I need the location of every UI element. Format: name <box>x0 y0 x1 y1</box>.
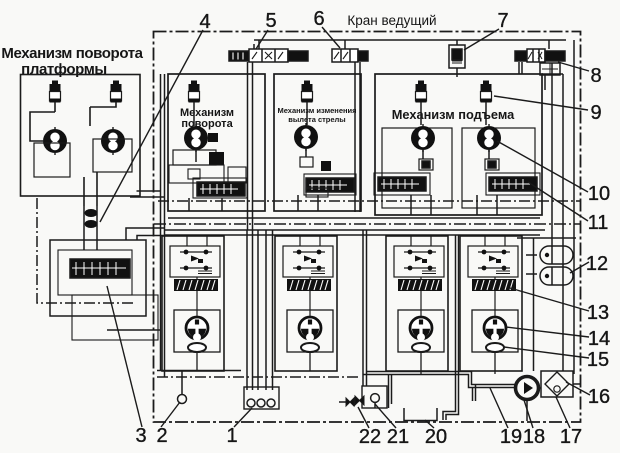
pump group 3 <box>386 236 448 371</box>
accumulator A3 (swing) <box>189 81 200 103</box>
hand pump feed wires <box>363 230 367 386</box>
bus wire 2 <box>164 229 545 231</box>
dash-dot pump suction line <box>157 376 358 378</box>
boom lower box <box>306 188 328 197</box>
bus wire 3 <box>164 234 540 236</box>
leader 16 <box>566 382 590 395</box>
motor M6 (hoist 2) <box>477 124 501 152</box>
wire relief to frame <box>573 383 580 385</box>
motor M5 (hoist 1) <box>411 124 435 152</box>
wire swing motor connections <box>189 102 222 211</box>
boom brake cylinder <box>321 161 331 171</box>
return wire 1 <box>246 230 248 390</box>
wire hoist1 connections <box>411 102 431 215</box>
motor M3 (swing) <box>184 124 208 152</box>
motor M2 sub-box <box>93 139 132 172</box>
wire left interior verticals <box>161 74 165 377</box>
filter under valve 8 <box>540 63 560 75</box>
leader 13 <box>510 288 589 311</box>
svg-text:17: 17 <box>560 426 582 448</box>
wire to drain point <box>181 371 183 395</box>
swing brake cylinder <box>209 152 224 165</box>
main pump 18 (bold circle) <box>516 377 539 400</box>
leader 14 <box>506 327 589 337</box>
brake cylinder ovals (item 4 target) <box>85 209 98 217</box>
right unit horizontal <box>517 237 576 239</box>
wire to ovals <box>84 206 97 250</box>
relief diamond <box>545 372 569 396</box>
leader 18 <box>524 400 533 428</box>
leader 11 <box>528 182 588 221</box>
bus dash-dot boundary <box>154 223 580 225</box>
leader 8 <box>558 62 589 71</box>
wire accu A1 to motor M1 <box>30 102 55 141</box>
leader 12 <box>570 262 589 273</box>
svg-text:2: 2 <box>156 425 167 447</box>
svg-text:20: 20 <box>425 426 447 448</box>
top supply wire <box>254 39 566 41</box>
motor M4 (boom) <box>294 123 318 151</box>
swing spool valve row <box>197 182 245 196</box>
svg-text:Механизм поворота: Механизм поворота <box>1 45 143 62</box>
tank symbol <box>404 408 437 421</box>
filter capsule 12b <box>540 267 573 285</box>
leader 9 <box>494 96 588 110</box>
svg-text:Механизм изменения: Механизм изменения <box>277 106 356 115</box>
svg-text:22: 22 <box>359 426 381 448</box>
wire valve5 drops <box>248 62 253 230</box>
return wire 5 <box>272 230 274 390</box>
wire right interior verticals <box>552 40 574 374</box>
section box: boom mechanism <box>274 74 361 211</box>
wire platform box down-pipes <box>84 172 97 206</box>
section box: swing mechanism <box>168 74 265 211</box>
accumulator A4 (boom) <box>302 81 313 103</box>
hoist2 spool valve row <box>489 177 537 191</box>
svg-text:Кран ведущий: Кран ведущий <box>347 13 436 28</box>
wire capsules to group 4 <box>526 255 537 274</box>
right unit vertical <box>533 238 535 371</box>
suction stubs <box>473 385 476 402</box>
boom spool valve row <box>306 178 354 192</box>
wire platform box to frame 1 <box>137 190 161 192</box>
leader 15 <box>504 347 589 358</box>
wire cluster to bus 2 <box>137 236 165 241</box>
suction corner <box>443 401 459 420</box>
leader 10 <box>497 141 588 192</box>
pilot valve 6 <box>332 40 368 62</box>
gap wires G3-G4 <box>456 235 459 401</box>
svg-text:19: 19 <box>500 426 522 448</box>
wire platform box to frame 2 <box>130 196 165 198</box>
platform control valve block (dense) <box>70 259 130 278</box>
leader 22 <box>358 407 369 428</box>
return wire 3 <box>257 230 259 390</box>
wire valve8 drops <box>519 62 545 90</box>
leader 17 <box>556 397 570 428</box>
svg-text:16: 16 <box>588 386 610 408</box>
svg-text:1: 1 <box>226 425 237 447</box>
pilot valve 5 <box>229 40 308 62</box>
svg-text:14: 14 <box>588 328 610 350</box>
return wire 2 <box>252 230 254 390</box>
leader 3 <box>107 286 142 427</box>
svg-text:6: 6 <box>313 8 324 30</box>
leader 1 <box>234 408 252 427</box>
leader 6 <box>322 27 340 48</box>
wire valve6 drops <box>355 62 360 212</box>
relief valve box 16/17 <box>541 371 573 397</box>
hoist sub-box 2 <box>462 128 535 208</box>
hoist2 brake cylinder <box>485 159 499 170</box>
boom upper valve box <box>300 157 313 167</box>
swing aux dark square <box>208 133 218 142</box>
svg-text:8: 8 <box>590 65 601 87</box>
motor M2 (platform) <box>101 127 125 155</box>
svg-text:21: 21 <box>387 426 409 448</box>
hoist sub-box 1 <box>382 128 452 208</box>
leader 19 <box>490 388 508 428</box>
junction box (item 1) <box>244 387 279 409</box>
leader 5 <box>256 30 268 49</box>
platform control valve nested box 3 <box>72 295 158 340</box>
return wire 4 <box>265 230 267 390</box>
dash-dot interior boundary <box>158 200 580 202</box>
leader 20 <box>425 420 434 428</box>
svg-text:7: 7 <box>497 10 508 32</box>
svg-text:5: 5 <box>265 10 276 32</box>
hoist1 spool valve row <box>378 177 426 191</box>
svg-text:9: 9 <box>590 102 601 124</box>
drain point circle (item 2) <box>178 395 187 404</box>
swing upper valve box <box>173 150 216 165</box>
pilot valve 7 (solenoid) <box>449 40 465 77</box>
pump group 1 <box>162 236 224 371</box>
tank return solid wire <box>157 370 241 372</box>
accumulator A6 (hoist 2) <box>481 81 492 103</box>
svg-text:3: 3 <box>135 425 146 447</box>
wire cluster to bus 1 <box>126 228 165 240</box>
leader 2 <box>161 402 180 427</box>
pump group 4 <box>460 236 522 371</box>
pilot valve 8 assembly <box>515 40 565 75</box>
bus wire 1 <box>168 217 540 219</box>
dash-dot boundary of platform control <box>37 198 136 303</box>
wire pump18 bottom <box>526 400 528 422</box>
wire hoist2 connections <box>477 102 497 215</box>
motor M1 sub-box <box>34 143 70 177</box>
svg-text:12: 12 <box>586 253 608 275</box>
leader 7 <box>464 29 499 50</box>
svg-text:13: 13 <box>587 302 609 324</box>
wire group drains <box>197 352 495 374</box>
svg-text:18: 18 <box>523 426 545 448</box>
svg-text:Механизм подъема: Механизм подъема <box>392 107 515 122</box>
wire boom motor connections <box>298 102 318 211</box>
wire accu A2 to motor M2 <box>90 102 116 126</box>
outer dash-dot frame of crane block <box>154 32 581 423</box>
swing right box <box>228 167 246 183</box>
swing mid box <box>169 165 224 183</box>
wire pump to relief <box>539 387 542 389</box>
svg-text:15: 15 <box>587 349 609 371</box>
svg-text:вылета стрелы: вылета стрелы <box>288 115 345 124</box>
main delivery double pipe <box>367 372 516 385</box>
svg-text:10: 10 <box>588 183 610 205</box>
hoist1 brake cylinder <box>419 159 433 170</box>
filter capsule 12a <box>540 246 573 264</box>
leader 21 <box>375 404 396 428</box>
accumulator A1 <box>50 81 61 103</box>
svg-text:11: 11 <box>588 212 609 234</box>
svg-text:4: 4 <box>199 11 210 33</box>
pump group 2 <box>275 236 337 371</box>
accumulator A5 (hoist 1) <box>416 81 427 103</box>
section box: hoist mechanism <box>375 74 542 215</box>
wire right horizontal at 74 <box>542 73 563 75</box>
platform control valve nested box 2 <box>58 250 132 295</box>
accumulator A2 <box>111 81 122 103</box>
hand pump (items 21/22) <box>339 375 392 409</box>
platform control valve nested box 1 <box>50 240 146 316</box>
motor M1 (platform) <box>43 127 67 155</box>
wire cluster bottom to frame <box>107 329 161 331</box>
leader 4 <box>100 30 203 222</box>
platform mechanism enclosure box <box>21 75 141 197</box>
svg-text:платформы: платформы <box>21 61 107 78</box>
